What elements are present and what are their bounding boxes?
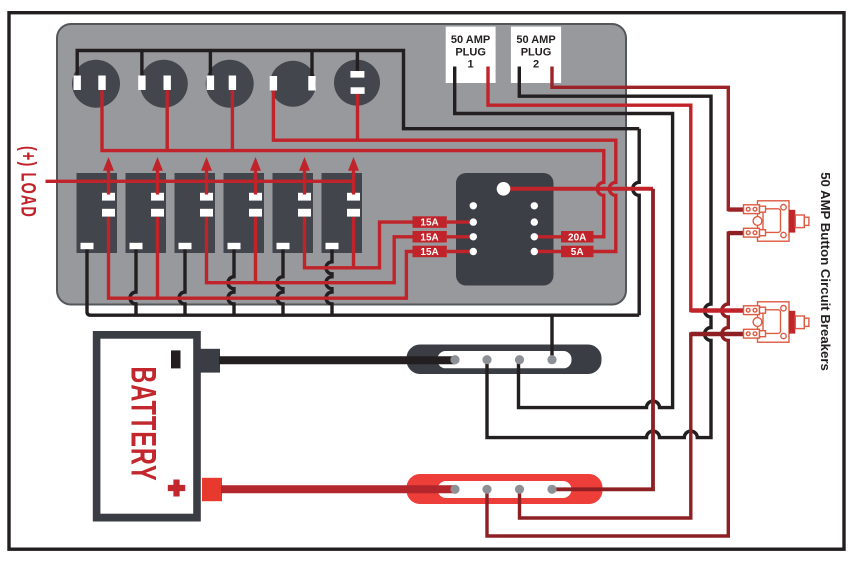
wire breaker CB1 bottom to positive bus with hops (487, 233, 744, 536)
svg-text:2: 2 (533, 59, 539, 71)
fuse F5 5A label (561, 246, 594, 258)
svg-text:20A: 20A (568, 232, 586, 243)
wire main ground vertical with hop (633, 129, 639, 316)
svg-text:PLUG: PLUG (455, 46, 486, 58)
wire socket L5 ground drop (356, 51, 359, 73)
plug P1 label (451, 34, 490, 70)
socket L5 slots (350, 71, 364, 78)
wire socket L3 positive drop (231, 90, 234, 151)
battery negative cable (219, 356, 455, 364)
wire socket L3 ground drop (209, 51, 212, 77)
battery positive terminal block (202, 478, 222, 501)
wire socket L5 positive drop (356, 94, 359, 141)
50 AMP PLUG 1 box (446, 27, 496, 83)
wire S1 S2 output to 15A fuse 3 (109, 217, 413, 298)
wire sockets L4-L5 positive to 5A fuse (273, 90, 615, 251)
svg-text:50 AMP: 50 AMP (451, 34, 490, 46)
svg-text:PLUG: PLUG (521, 46, 552, 58)
S6 load arrow (348, 157, 359, 195)
wire plug1 positive to breaker CB2 top (488, 67, 744, 311)
rocker switch S4 body (224, 173, 265, 253)
wire block to 20A fuse (534, 235, 561, 238)
wire S3 ground drop hop (179, 249, 185, 315)
wire S4 ground drop hops (228, 249, 234, 315)
switch S3 terminals (200, 193, 213, 201)
wire S2 ground drop hop (130, 249, 136, 315)
battery negative mark (171, 350, 181, 368)
svg-text:15A: 15A (420, 247, 438, 258)
50 AMP PLUG 2 box (511, 27, 561, 83)
wire (+) load feed line (46, 180, 355, 183)
wire socket L4 ground drop (310, 51, 313, 78)
svg-text:(+) LOAD: (+) LOAD (17, 146, 40, 218)
battery B1 body (93, 331, 201, 522)
wire negative bus to switch ground bus (550, 315, 553, 360)
fuse F3 15A label (413, 246, 447, 258)
wire S5 ground drop hops (277, 249, 283, 315)
breaker CB2 terminal stubs (691, 308, 745, 312)
S3 load arrow (201, 157, 212, 195)
wire 15A fuse 3 to block (447, 250, 474, 253)
svg-text:1: 1 (468, 59, 474, 71)
wire ground top bus to sockets (77, 51, 639, 129)
fuse block main stud (497, 182, 511, 196)
svg-text:5A: 5A (571, 247, 584, 258)
socket L2 terminals (138, 76, 145, 91)
wire breaker CB2 bottom to positive bus (520, 334, 744, 518)
wire socket L2 positive drop (165, 90, 168, 151)
svg-text:15A: 15A (420, 218, 438, 229)
rocker switch S6 body (322, 173, 363, 253)
wire S6 ground drop hops (326, 249, 332, 315)
battery positive mark (168, 480, 185, 497)
fuse F4 20A label (561, 231, 594, 243)
socket L3 terminals (207, 76, 214, 91)
fuse block right pins (531, 202, 538, 255)
switch S5 terminals (298, 193, 311, 201)
wire S6 output drop (352, 217, 355, 268)
plug P2 label (516, 34, 555, 70)
switch S1 terminals (102, 193, 115, 201)
fuse block left pins (470, 202, 477, 255)
socket L1 terminals (74, 76, 81, 91)
wire S5 S6 output to 15A fuse 1 (305, 217, 413, 268)
wire block to 5A fuse (534, 250, 561, 253)
S2 load arrow (152, 157, 163, 195)
battery negative terminal block (199, 349, 220, 373)
switch S6 terminals (347, 193, 360, 201)
wire S4 output drop (254, 217, 257, 283)
wire S3 S4 output to 15A fuse 2 (207, 217, 413, 283)
negative bus bar studs (450, 355, 556, 364)
wire plug2 negative return with hops (487, 67, 711, 438)
wire fuse block feed to positive bus (552, 189, 653, 490)
negative bus bar body (407, 345, 602, 375)
socket L4 (270, 61, 316, 107)
socket L3 (206, 60, 254, 108)
battery positive cable (221, 485, 455, 493)
S4 load arrow (250, 157, 261, 195)
breaker CB1 terminal stubs (728, 207, 744, 211)
wire sockets L1-L3 positive to 20A fuse (102, 90, 604, 237)
switch S2 terminals (151, 193, 164, 201)
socket L5 (334, 60, 380, 106)
fuse block FB1 body (456, 173, 554, 286)
socket L4 terminals (270, 76, 277, 91)
fuse F2 15A label (413, 231, 447, 243)
wire socket L2 ground drop (140, 51, 143, 77)
rocker switch S2 body (126, 173, 167, 253)
wire switch ground bus (87, 249, 639, 315)
wire fuse block main feed (504, 187, 654, 191)
svg-text:50 AMP Button Circuit Breakers: 50 AMP Button Circuit Breakers (818, 172, 833, 371)
rocker switch S1 body (77, 173, 118, 253)
switch S4 terminals (249, 193, 262, 201)
wire plug1 negative return (455, 67, 673, 408)
rocker switch S5 body (273, 173, 314, 253)
svg-text:15A: 15A (420, 232, 438, 243)
positive bus bar studs (450, 485, 556, 494)
fuse F1 15A label (413, 216, 447, 228)
svg-text:BATTERY: BATTERY (123, 366, 162, 481)
wire S2 output drop (156, 217, 159, 298)
wire plug2 positive to breaker CB1 top (552, 67, 744, 210)
wire 15A fuse 1 to block (447, 220, 474, 223)
svg-text:50 AMP: 50 AMP (516, 34, 555, 46)
socket L1 (72, 60, 120, 108)
S1 load arrow (103, 157, 114, 195)
socket L2 (140, 60, 188, 108)
positive bus bar body (407, 474, 603, 504)
circuit breaker CB1 (744, 201, 809, 241)
switch panel (57, 24, 626, 305)
wire 15A fuse 2 to block (447, 235, 474, 238)
S5 load arrow (299, 157, 310, 195)
circuit breaker CB2 (744, 302, 809, 342)
rocker switch S3 body (175, 173, 216, 253)
